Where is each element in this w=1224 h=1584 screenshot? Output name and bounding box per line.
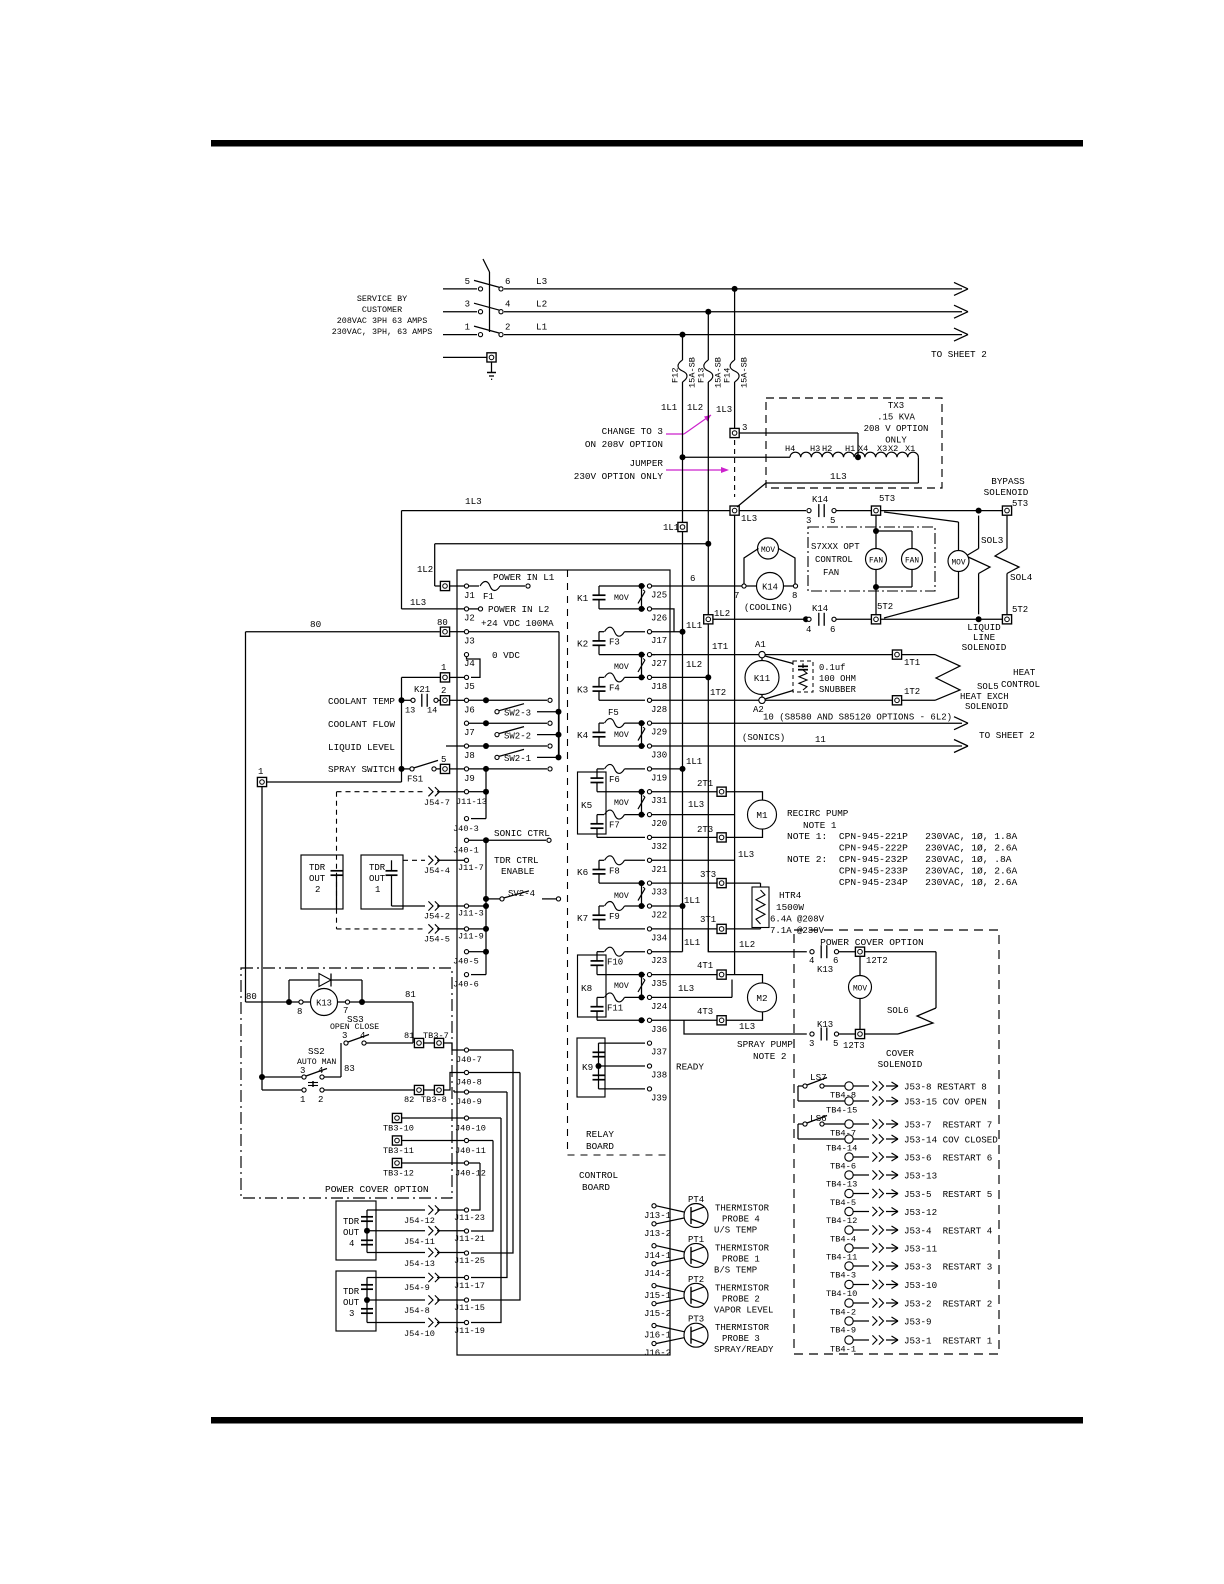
svg-text:CUSTOMER: CUSTOMER: [362, 305, 402, 315]
wire 1L2 to power-in-L1: [417, 544, 708, 586]
svg-text:J53-4 RESTART 4: J53-4 RESTART 4: [904, 1226, 993, 1237]
annotation arrow change-to-3: [666, 415, 711, 434]
svg-text:J40-3: J40-3: [453, 824, 479, 834]
terminal TB4-5: [830, 1189, 856, 1208]
connector J40-7: [444, 1043, 513, 1065]
thermistor probe PT4: [644, 1195, 770, 1239]
connector J30: [647, 744, 667, 761]
wire TB4-5 output: [853, 1189, 992, 1200]
svg-text:1500W: 1500W: [776, 902, 804, 913]
fan FAN2: [902, 549, 923, 570]
connector J3 +24VDC: [450, 618, 559, 757]
svg-text:J13-2: J13-2: [644, 1229, 671, 1239]
svg-text:J53-1 RESTART 1: J53-1 RESTART 1: [904, 1336, 993, 1347]
svg-text:F11: F11: [607, 1003, 623, 1013]
wire jumper 1L1 to H4: [683, 456, 791, 458]
svg-text:3T1: 3T1: [700, 915, 716, 925]
svg-text:J29: J29: [651, 728, 667, 738]
svg-text:K6: K6: [577, 867, 588, 878]
svg-text:8: 8: [792, 591, 797, 601]
text service by customer: [332, 294, 433, 337]
connector J9: [464, 766, 552, 784]
switch SW2-3: [495, 704, 562, 719]
svg-text:SS2: SS2: [308, 1046, 325, 1057]
svg-text:PT4: PT4: [688, 1195, 704, 1205]
svg-text:230V OPTION ONLY: 230V OPTION ONLY: [574, 471, 664, 482]
motor M2: [727, 975, 777, 1021]
svg-text:J19: J19: [651, 773, 667, 783]
terminal 5T2 right: [1002, 605, 1028, 624]
svg-text:J53-10: J53-10: [904, 1280, 937, 1291]
terminal 81 TB3-7: [404, 1031, 449, 1048]
svg-text:1L2: 1L2: [687, 403, 703, 413]
svg-text:(COOLING): (COOLING): [744, 603, 793, 613]
svg-text:SOL5: SOL5: [977, 682, 999, 692]
text change to 3 on 208V option: [585, 426, 663, 450]
svg-text:1: 1: [441, 663, 446, 673]
svg-text:J26: J26: [651, 613, 667, 623]
svg-text:1L3: 1L3: [738, 850, 754, 860]
svg-text:TO SHEET 2: TO SHEET 2: [979, 730, 1035, 741]
wire TB4-15 output: [853, 1096, 987, 1107]
svg-text:J18: J18: [651, 682, 667, 692]
connector J37: [647, 1041, 667, 1058]
svg-text:J15-2: J15-2: [644, 1309, 671, 1319]
svg-text:J17: J17: [651, 636, 667, 646]
svg-text:K14: K14: [812, 495, 828, 505]
wire coil 6 feed: [652, 574, 742, 586]
wire sonics 11: [652, 733, 968, 753]
svg-text:J11-17: J11-17: [454, 1281, 485, 1291]
wire J27 to 1T1: [652, 654, 655, 656]
fan FAN1: [866, 549, 887, 570]
svg-text:F8: F8: [609, 866, 620, 876]
switch SS2 auto/man: [262, 1046, 414, 1105]
svg-text:TB3-10: TB3-10: [383, 1124, 414, 1134]
svg-text:THERMISTOR: THERMISTOR: [715, 1283, 770, 1293]
svg-text:1L1: 1L1: [684, 896, 700, 906]
svg-text:OUT: OUT: [343, 1228, 360, 1238]
svg-text:SW2-3: SW2-3: [504, 709, 531, 719]
svg-text:TDR: TDR: [343, 1287, 360, 1297]
wire TB3-12 to J11-23: [471, 1163, 480, 1210]
svg-text:1L1: 1L1: [684, 938, 700, 948]
svg-text:COOLANT TEMP: COOLANT TEMP: [328, 696, 395, 707]
svg-text:J54-7: J54-7: [424, 798, 450, 808]
svg-text:J40-7: J40-7: [456, 1055, 482, 1065]
svg-text:3: 3: [349, 1309, 354, 1319]
fan box S7XXX: [808, 527, 935, 591]
svg-text:COOLANT FLOW: COOLANT FLOW: [328, 719, 395, 730]
terminal 12T2: [855, 947, 887, 966]
svg-text:F10: F10: [607, 958, 623, 968]
varistor MOV (bypass): [884, 512, 969, 618]
connector J8: [446, 743, 552, 761]
heater HTR4: [727, 883, 825, 936]
svg-text:H1: H1: [845, 444, 855, 454]
svg-text:1: 1: [300, 1095, 305, 1105]
wire tap H1/X4 to terminal 3: [740, 433, 862, 460]
svg-text:NOTE 1: NOTE 1: [803, 820, 837, 831]
connector J19: [647, 767, 667, 784]
svg-text:J34: J34: [651, 933, 667, 943]
svg-text:J3: J3: [464, 637, 475, 647]
svg-text:J40-12: J40-12: [455, 1169, 486, 1179]
svg-text:J11-15: J11-15: [454, 1303, 485, 1313]
svg-text:MOV: MOV: [614, 799, 629, 808]
thermistor probe PT3: [644, 1315, 774, 1359]
wire 5T2 row: [713, 616, 809, 622]
connector J40-3: [453, 817, 486, 835]
connector J40-5: [453, 950, 484, 967]
svg-text:F1: F1: [483, 592, 494, 602]
wire J21 to 1L3: [652, 850, 754, 860]
svg-text:MOV: MOV: [614, 663, 629, 672]
wire 1T1 to terminal: [765, 654, 892, 656]
svg-text:1L1: 1L1: [686, 621, 702, 631]
motor M1: [727, 792, 777, 838]
varistor MOV rows 17-18: [614, 972, 645, 1001]
wire 1T2 row: [652, 688, 892, 700]
timer TDR OUT 1: [361, 855, 403, 909]
svg-text:3: 3: [342, 1031, 347, 1041]
svg-text:SOL3: SOL3: [981, 535, 1003, 546]
svg-text:J40-11: J40-11: [455, 1146, 486, 1156]
svg-text:PROBE 1: PROBE 1: [722, 1254, 760, 1264]
svg-text:3: 3: [742, 423, 747, 433]
connector J26: [647, 607, 667, 624]
text jumper 230V option only: [574, 458, 664, 482]
svg-text:5: 5: [441, 755, 446, 765]
svg-text:J11-19: J11-19: [454, 1326, 485, 1336]
svg-text:X2: X2: [888, 444, 898, 454]
svg-text:K8: K8: [581, 983, 592, 994]
svg-text:6: 6: [833, 956, 838, 966]
svg-text:1L2: 1L2: [417, 565, 433, 575]
terminal 1 (spray circuit): [402, 663, 465, 682]
terminal 5T3 left: [871, 494, 895, 515]
svg-text:J54-13: J54-13: [404, 1259, 435, 1269]
svg-text:J14-2: J14-2: [644, 1269, 671, 1279]
svg-text:TB4-13: TB4-13: [826, 1180, 857, 1190]
terminal TB3-12: [383, 1158, 486, 1178]
svg-text:4: 4: [806, 625, 811, 635]
connector J23: [647, 950, 667, 967]
wire TB4-9 output: [853, 1316, 931, 1327]
terminal 1L2 (bus): [704, 609, 731, 624]
connector J11-23 / J54-12: [367, 1205, 485, 1226]
wire TB4-2 output: [853, 1298, 992, 1309]
connector J31: [647, 790, 667, 807]
terminal 2T1: [652, 779, 726, 796]
connector J17: [647, 630, 667, 647]
svg-text:PROBE 3: PROBE 3: [722, 1334, 760, 1344]
connector J32: [647, 835, 667, 852]
wire L3: [504, 276, 968, 296]
svg-text:TB4-1: TB4-1: [830, 1345, 856, 1355]
svg-text:F5: F5: [608, 708, 619, 718]
svg-text:K1: K1: [577, 593, 589, 604]
svg-text:J22: J22: [651, 911, 667, 921]
svg-text:LIQUID LEVEL: LIQUID LEVEL: [328, 742, 395, 753]
relay K9: [577, 1038, 645, 1097]
wire riser J9 to J40-3: [483, 769, 489, 819]
wire TB4-4 output: [853, 1225, 993, 1236]
wire J22 to 1L1: [652, 896, 700, 906]
text control board: [579, 1170, 618, 1193]
terminal TB4-11: [826, 1244, 857, 1263]
svg-text:J11-25: J11-25: [454, 1256, 485, 1266]
connector J11-19 / J54-10: [367, 1318, 485, 1339]
svg-text:J31: J31: [651, 796, 667, 806]
connector J40-9: [454, 1090, 507, 1107]
terminal TB4-15: [826, 1097, 857, 1116]
svg-text:1: 1: [465, 323, 470, 333]
svg-text:1L3: 1L3: [410, 598, 426, 608]
svg-text:J28: J28: [651, 705, 667, 715]
junction on line at F12: [680, 332, 686, 338]
terminal 4T1: [652, 961, 726, 979]
svg-text:J54-11: J54-11: [404, 1237, 435, 1247]
svg-text:J30: J30: [651, 751, 667, 761]
fuse F13 15A-SB: [696, 312, 723, 392]
svg-text:J40-1: J40-1: [453, 846, 479, 856]
svg-text:J54-2: J54-2: [424, 912, 450, 922]
svg-text:J20: J20: [651, 819, 667, 829]
svg-text:J53-12: J53-12: [904, 1207, 937, 1218]
svg-text:TB4-10: TB4-10: [826, 1289, 857, 1299]
fuse F12 15A-SB: [671, 335, 698, 392]
svg-text:CONTROL: CONTROL: [579, 1170, 618, 1181]
svg-text:F6: F6: [609, 775, 620, 785]
terminal TB4-7: [830, 1120, 856, 1139]
terminal 1T2: [892, 687, 920, 705]
svg-text:F12: F12: [671, 368, 681, 383]
svg-text:J6: J6: [464, 706, 475, 716]
terminal 80 (+24V): [437, 618, 450, 636]
svg-text:1T1: 1T1: [904, 658, 920, 668]
svg-text:5T2: 5T2: [877, 602, 893, 612]
svg-text:1: 1: [258, 767, 263, 777]
svg-text:TB4-9: TB4-9: [830, 1326, 856, 1336]
svg-text:15A-SB: 15A-SB: [740, 357, 750, 388]
svg-text:J16-2: J16-2: [644, 1349, 671, 1359]
terminal TB4-9: [830, 1317, 856, 1336]
text bypass solenoid: [984, 476, 1029, 509]
varistor MOV rows 6-7: [614, 720, 645, 749]
svg-text:J53-13: J53-13: [904, 1171, 937, 1182]
terminal 3T3: [652, 870, 726, 888]
connector J20: [647, 813, 667, 830]
relay K3: [577, 673, 645, 700]
svg-text:CHANGE TO 3: CHANGE TO 3: [602, 426, 663, 437]
svg-text:6: 6: [505, 277, 510, 287]
varistor MOV rows 9-10: [614, 789, 645, 818]
svg-text:5: 5: [465, 277, 470, 287]
solenoid SOL6: [865, 952, 936, 1034]
wire 5T2 to right: [881, 616, 1002, 622]
svg-text:BOARD: BOARD: [582, 1182, 610, 1193]
svg-text:THERMISTOR: THERMISTOR: [715, 1323, 770, 1333]
connector J11-7 / J54-4 tdr ctrl enable: [403, 855, 539, 877]
diode CR1: [289, 974, 362, 1003]
svg-text:4: 4: [809, 956, 814, 966]
terminal 5T3 right: [1002, 506, 1011, 515]
svg-text:J2: J2: [464, 614, 475, 624]
svg-text:M1: M1: [756, 810, 768, 821]
svg-text:5T3: 5T3: [1012, 499, 1028, 509]
terminal TB4-3: [830, 1262, 856, 1281]
svg-text:J25: J25: [651, 591, 667, 601]
wire TB4-1 output: [853, 1335, 993, 1346]
svg-text:1L3: 1L3: [678, 984, 694, 994]
connector J25: [647, 584, 667, 601]
svg-text:TB3-11: TB3-11: [383, 1146, 414, 1156]
terminal 3 (208V option): [730, 423, 747, 438]
svg-text:J54-5: J54-5: [424, 935, 450, 945]
svg-text:4: 4: [505, 300, 510, 310]
junction on line at F14: [732, 286, 738, 292]
connector J11-21 / J54-11: [367, 1226, 485, 1247]
wire L1: [504, 322, 968, 342]
connector J4 / J5 0VDC: [464, 650, 520, 692]
wire tdr2 dashed riser: [336, 792, 338, 929]
svg-text:6: 6: [830, 625, 835, 635]
svg-text:J11-3: J11-3: [458, 909, 484, 919]
svg-text:J11-7: J11-7: [458, 863, 484, 873]
svg-text:82: 82: [404, 1095, 414, 1105]
wire bus 1L2: [705, 392, 711, 952]
wire J26 jog: [652, 609, 674, 632]
svg-text:H2: H2: [822, 444, 832, 454]
svg-text:3T3: 3T3: [700, 870, 716, 880]
svg-text:L3: L3: [536, 276, 547, 287]
timer TDR OUT 4: [336, 1201, 376, 1260]
svg-text:K13: K13: [316, 999, 332, 1009]
svg-text:J24: J24: [651, 1002, 667, 1012]
svg-text:MOV: MOV: [951, 560, 965, 568]
border frame: [211, 140, 1083, 147]
svg-text:PT2: PT2: [688, 1275, 704, 1285]
svg-text:CPN-945-233P 230VAC, 1Ø, 2.6: CPN-945-233P 230VAC, 1Ø, 2.6A: [787, 866, 1018, 877]
svg-text:F9: F9: [609, 912, 620, 922]
terminal TB4-13: [826, 1171, 857, 1190]
svg-text:SOLENOID: SOLENOID: [984, 487, 1029, 498]
ground: [443, 353, 496, 380]
svg-text:K14: K14: [812, 604, 828, 614]
svg-text:1L2: 1L2: [739, 940, 755, 950]
svg-text:K13: K13: [817, 965, 833, 975]
svg-text:TB3-12: TB3-12: [383, 1169, 414, 1179]
svg-text:J40-8: J40-8: [456, 1078, 482, 1088]
snubber network: [765, 656, 857, 699]
svg-text:J54-8: J54-8: [404, 1306, 430, 1316]
terminal 1L2 (power in): [435, 581, 450, 590]
relay coil K14 (cooling): [734, 573, 798, 614]
text spray pump: [737, 1039, 793, 1062]
svg-text:FAN: FAN: [823, 568, 839, 578]
svg-text:J53-3 RESTART 3: J53-3 RESTART 3: [904, 1262, 992, 1273]
svg-text:5: 5: [830, 516, 835, 526]
svg-text:MOV: MOV: [761, 547, 775, 555]
svg-text:2: 2: [318, 1095, 323, 1105]
terminal 1L3: [730, 506, 757, 524]
svg-text:1L3: 1L3: [716, 405, 732, 415]
terminal TB4-1: [830, 1336, 856, 1355]
terminal 2: [440, 686, 464, 705]
relay contact K14 3-5: [806, 495, 871, 526]
relay contact K13 3-5: [809, 1020, 855, 1049]
svg-text:TDR: TDR: [369, 863, 386, 873]
svg-text:4T1: 4T1: [697, 961, 713, 971]
text cover solenoid: [878, 1048, 923, 1070]
svg-text:U/S TEMP: U/S TEMP: [714, 1226, 757, 1236]
text liquid line solenoid: [962, 622, 1007, 653]
wire J40-9 to J11-17: [471, 1092, 507, 1278]
thermistor probe PT2: [644, 1275, 773, 1319]
wire TB4-10 output: [853, 1280, 937, 1291]
thermistor probe PT1: [644, 1235, 770, 1279]
relay K1: [577, 586, 645, 609]
wire 81: [362, 990, 416, 1043]
svg-text:X3: X3: [877, 444, 887, 454]
connector J7: [464, 720, 552, 738]
terminal 5: [440, 755, 464, 774]
svg-text:J39: J39: [651, 1093, 667, 1103]
svg-text:SOLENOID: SOLENOID: [878, 1059, 923, 1070]
svg-text:SERVICE BY: SERVICE BY: [357, 294, 407, 304]
solenoid SOL5 heat exch: [902, 655, 1040, 712]
svg-text:J53-7 RESTART 7: J53-7 RESTART 7: [904, 1120, 992, 1131]
terminal 5T2 left: [871, 602, 893, 624]
relay K6: [577, 856, 645, 883]
wire 12T2 feed 1L2: [708, 928, 807, 952]
svg-text:J5: J5: [464, 682, 475, 692]
svg-text:5T3: 5T3: [879, 494, 895, 504]
wire TB3-10 to J11-19: [471, 1118, 501, 1323]
svg-text:12T2: 12T2: [866, 956, 888, 966]
svg-text:K7: K7: [577, 913, 588, 924]
junction K8 mov lower: [639, 1017, 645, 1023]
wire 5T3 to right: [881, 508, 1002, 514]
svg-text:1L3: 1L3: [741, 514, 757, 524]
wire fan feed: [873, 516, 912, 615]
svg-text:TB4-5: TB4-5: [830, 1198, 856, 1208]
svg-text:PT1: PT1: [688, 1235, 704, 1245]
svg-text:2: 2: [505, 323, 510, 333]
svg-text:NOTE 2: NOTE 2: [753, 1051, 786, 1062]
connector J11-9 / J54-5: [337, 924, 485, 944]
svg-text:TB4-12: TB4-12: [826, 1216, 857, 1226]
svg-text:RELAY: RELAY: [586, 1129, 614, 1140]
relay K4: [577, 708, 645, 746]
svg-text:H3: H3: [810, 444, 820, 454]
svg-text:J33: J33: [651, 888, 667, 898]
svg-text:1T2: 1T2: [904, 687, 920, 697]
terminal 1L1: [663, 522, 687, 533]
svg-text:J16-1: J16-1: [644, 1331, 671, 1341]
svg-text:J53-15 COV OPEN: J53-15 COV OPEN: [904, 1097, 987, 1108]
svg-text:TB4-11: TB4-11: [826, 1253, 857, 1263]
connector J11-25 / J54-13: [367, 1248, 485, 1269]
svg-text:(SONICS): (SONICS): [742, 733, 785, 743]
svg-text:FAN: FAN: [869, 558, 883, 566]
svg-text:SOL4: SOL4: [1010, 572, 1033, 583]
connector J11-15 / J54-8: [367, 1295, 485, 1316]
svg-text:1L2: 1L2: [686, 660, 702, 670]
svg-text:3: 3: [465, 300, 470, 310]
svg-text:MOV: MOV: [614, 594, 629, 603]
